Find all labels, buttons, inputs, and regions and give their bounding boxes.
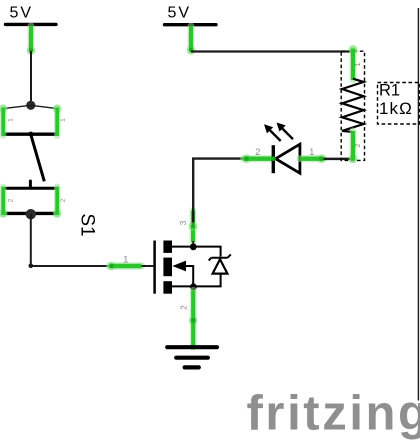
transistor Q1 body arrow	[172, 261, 186, 272]
wire drain vertical black	[193, 159, 243, 227]
wire switch to corner	[30, 214, 32, 266]
svg-text:2: 2	[353, 143, 362, 147]
switch S1 pin 1 right (green)	[53, 105, 62, 136]
node source junction dot	[190, 283, 197, 290]
wire source to ground (green)	[189, 290, 198, 349]
svg-text:1kΩ: 1kΩ	[379, 99, 413, 118]
wire to node A	[30, 51, 32, 103]
svg-text:1: 1	[60, 118, 67, 122]
LED D1 emission arrow 1	[264, 124, 281, 141]
wire green from 5V middle	[187, 26, 196, 54]
switch S1 pin 1 left (green)	[0, 105, 8, 136]
transistor Q1 body stub	[163, 258, 172, 277]
LED D1 cathode bar	[272, 145, 275, 173]
LED D1 wire right green	[300, 154, 326, 163]
body diode triangle	[213, 259, 228, 273]
wire to gate black	[142, 265, 154, 267]
svg-text:2: 2	[60, 198, 67, 202]
svg-text:1: 1	[353, 62, 362, 66]
switch S1 bottom half body	[2, 188, 59, 213]
svg-text:1: 1	[309, 147, 314, 158]
switch S1 common dot	[28, 132, 33, 137]
resistor R1 dashed body box	[341, 51, 364, 160]
wire LED to resistor black	[324, 158, 354, 161]
ground symbol	[167, 347, 217, 367]
svg-text:1: 1	[8, 118, 15, 122]
corner dot	[29, 264, 34, 269]
svg-text:3: 3	[178, 220, 188, 225]
transistor Q1 drain lead	[172, 246, 193, 248]
wire 5V to resistor	[191, 50, 352, 52]
power rail 5V (left) bar	[6, 23, 57, 26]
label R1 value dashed box	[378, 83, 420, 125]
LED D1 triangle	[276, 144, 300, 173]
transistor Q1 pin 3 leg (green)	[190, 211, 197, 243]
node B junction dot	[26, 209, 36, 219]
transistor Q1 drain stub	[163, 241, 172, 253]
LED D1 emission arrow 2	[277, 123, 294, 140]
svg-text:1: 1	[123, 255, 128, 266]
wire green from 5V left	[27, 26, 36, 55]
transistor Q1 source lead	[172, 285, 193, 287]
svg-text:5V: 5V	[168, 5, 192, 22]
frame edge line right	[417, 8, 419, 401]
wire end glow dot	[189, 222, 198, 231]
node drain junction dot	[190, 243, 197, 250]
switch S1 top half body	[2, 105, 59, 134]
body diode wire top	[193, 247, 220, 257]
power rail 5V (middle) bar	[165, 23, 217, 26]
body diode wire bottom	[193, 274, 220, 287]
resistor R1 pin 2 (green)	[348, 131, 357, 163]
switch S1 pin 2 left (green)	[0, 187, 8, 218]
svg-text:S1: S1	[77, 213, 98, 236]
svg-text:5V: 5V	[10, 5, 34, 22]
svg-text:2: 2	[178, 305, 188, 310]
LED D1 wire left green	[242, 154, 272, 163]
transistor Q1 body tie wire	[186, 266, 193, 286]
wire gate segment (green)	[107, 262, 141, 271]
body diode (zener) cathode bar	[209, 254, 231, 260]
wire corner to gate (black part)	[31, 265, 110, 267]
transistor Q1 source stub	[163, 281, 172, 294]
svg-text:2: 2	[255, 147, 260, 158]
node A junction dot	[26, 101, 35, 110]
resistor R1 zigzag	[342, 79, 364, 132]
svg-text:2: 2	[8, 198, 15, 202]
resistor R1 pin 1 (green)	[348, 45, 357, 80]
svg-text:fritzing: fritzing	[247, 386, 420, 440]
switch S1 lever	[31, 135, 45, 182]
switch S1 pin 2 right (green)	[53, 187, 62, 218]
transistor Q1 gate line	[153, 241, 156, 294]
switch S1 lower contact tick	[29, 181, 32, 188]
svg-text:R1: R1	[379, 82, 400, 100]
wire end dot at LED cathode	[271, 156, 276, 161]
